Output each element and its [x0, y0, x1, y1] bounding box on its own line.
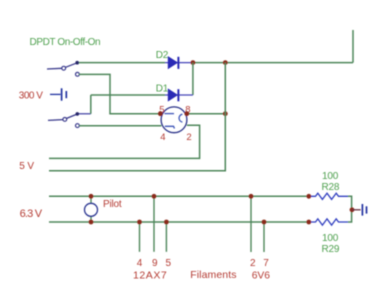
pilot lamp stub top	[90, 196, 92, 203]
switch S1a pole contact	[62, 66, 66, 70]
wire 6.3V upper	[49, 195, 311, 197]
svg-text:2: 2	[250, 258, 256, 269]
svg-text:R29: R29	[322, 244, 340, 255]
svg-text:5: 5	[166, 258, 172, 269]
wire D2-D1 vertical	[192, 63, 194, 95]
junction	[164, 220, 169, 225]
svg-text:D2: D2	[156, 50, 169, 61]
switch S1a lever contact dot	[75, 61, 79, 65]
svg-text:9: 9	[152, 258, 158, 269]
wire 6.3V lower	[49, 221, 311, 223]
junction test point	[350, 207, 355, 212]
pilot lamp stub bottom	[90, 216, 92, 222]
svg-text:4: 4	[137, 258, 143, 269]
wire R28 R29 tie	[348, 196, 352, 222]
wire at D2	[165, 62, 193, 64]
wire S1b lever to D1 riser	[79, 113, 91, 115]
junction	[137, 220, 142, 225]
svg-text:4: 4	[160, 132, 165, 143]
svg-text:D1: D1	[156, 84, 169, 95]
switch S1a pole stub	[47, 67, 62, 70]
svg-text:R28: R28	[322, 182, 340, 193]
switch S1b throw contact	[76, 124, 80, 128]
junction	[89, 194, 94, 199]
junction	[223, 60, 228, 65]
svg-text:Filaments: Filaments	[190, 269, 236, 281]
resistor R29	[311, 219, 348, 225]
junction	[152, 194, 157, 199]
resistor R28	[311, 193, 348, 199]
junction	[262, 220, 267, 225]
battery B1 wire	[50, 93, 61, 95]
svg-text:100: 100	[322, 233, 339, 244]
svg-text:DPDT On-Off-On: DPDT On-Off-On	[30, 37, 101, 48]
wire 5V lower run	[49, 63, 225, 171]
pilot lamp	[85, 203, 98, 216]
wire 12AX7 pin4 drop	[139, 222, 141, 252]
svg-text:Pilot: Pilot	[103, 199, 122, 210]
junction	[249, 194, 254, 199]
junction	[191, 60, 196, 65]
switch S1a lever	[66, 63, 78, 68]
wire D2 to right	[193, 62, 353, 64]
wire riser top right	[352, 30, 354, 63]
svg-text:6.3 V: 6.3 V	[20, 208, 43, 220]
junction	[306, 220, 311, 225]
switch S1b lever contact dot	[76, 112, 80, 116]
wire at D1	[165, 94, 193, 96]
tube V1 envelope	[161, 107, 187, 133]
switch S1b lever	[67, 114, 78, 118]
wire S1b throw to tube heater	[79, 125, 161, 127]
wire 5V upper run	[49, 125, 200, 158]
junction	[223, 111, 228, 116]
wire S1a throw to tube pin5	[79, 74, 160, 113]
junction	[184, 111, 189, 116]
svg-text:300 V: 300 V	[19, 91, 43, 102]
svg-text:2: 2	[186, 132, 191, 143]
test point short bar	[366, 206, 368, 213]
junction	[306, 194, 311, 199]
battery B1 short plate	[65, 91, 67, 98]
wire 6V6 pin2 drop	[250, 196, 252, 252]
diode D1	[168, 89, 178, 101]
svg-text:5 V: 5 V	[19, 161, 34, 172]
wire 6V6 pin7 drop	[263, 222, 265, 252]
svg-text:6V6: 6V6	[252, 270, 270, 281]
wire pin8 to feed riser	[187, 113, 226, 115]
diode D2	[168, 57, 178, 69]
switch S1b pole contact	[63, 118, 67, 122]
wire 12AX7 pin9 drop	[153, 196, 155, 252]
wire B+ top	[79, 62, 165, 64]
tube V1 heater arc	[179, 114, 182, 122]
tube V1 heater lower dash	[165, 126, 175, 128]
junction	[158, 111, 163, 116]
junction	[89, 220, 94, 225]
wire 12AX7 pin5 drop	[165, 222, 167, 252]
test point long bar	[361, 204, 363, 216]
test point wire	[352, 209, 361, 211]
battery B1 long plate	[61, 88, 63, 100]
svg-text:100: 100	[322, 171, 339, 182]
tube V1 heater upper dash	[165, 113, 175, 115]
switch S1b pole stub	[48, 119, 63, 122]
wire D1 anode	[91, 94, 165, 96]
switch S1a throw contact	[76, 72, 80, 76]
wire riser to D1	[90, 95, 92, 114]
svg-text:7: 7	[263, 258, 269, 269]
svg-text:12AX7: 12AX7	[133, 269, 167, 281]
